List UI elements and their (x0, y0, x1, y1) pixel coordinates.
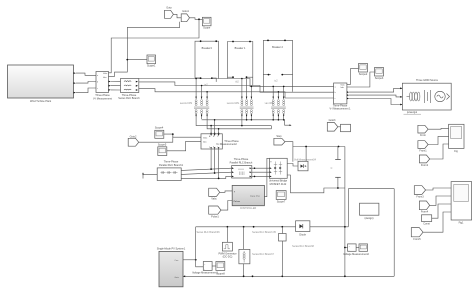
block CONTROLLER subsystem (232, 185, 264, 210)
svg-text:Series RLC Branch06: Series RLC Branch06 (196, 231, 220, 234)
svg-text:Const: Const (423, 223, 430, 226)
svg-text:Fig1: Fig1 (459, 222, 464, 225)
svg-text:Breaker4: Breaker4 (202, 47, 213, 50)
block Three-Phase V-I Measurement (93, 72, 112, 101)
svg-text:Iabc: Iabc (203, 142, 207, 144)
wire tap to voltage measurement2 (345, 247, 348, 249)
block Scope4 (155, 127, 164, 139)
tag From4 (419, 201, 429, 214)
svg-text:Scope8: Scope8 (216, 273, 225, 276)
block Universal Bridge MOSFET (269, 158, 288, 186)
svg-text:Parallel RLC Branch1: Parallel RLC Branch1 (159, 164, 184, 167)
wire curr down to voltage measurement (196, 260, 204, 267)
svg-text:CONTROLLER: CONTROLLER (240, 207, 257, 210)
svg-text:Parallel RLC Branch: Parallel RLC Branch (230, 161, 253, 164)
wire pulses tag down (285, 142, 293, 162)
block Fig1 scope big (451, 182, 472, 225)
wire Vabc1 to Scope2 (347, 69, 359, 85)
svg-text:ta2: ta2 (204, 83, 208, 86)
wire wind plant a to measurement (76, 73, 96, 75)
wire stub into RLC branch1 (143, 174, 157, 178)
svg-text:powergui: powergui (407, 111, 418, 114)
svg-text:Goto: Goto (166, 7, 172, 10)
tag Goto (165, 7, 174, 19)
wire VI1 abc to grid source (349, 88, 402, 92)
transformer T2 three-phase (227, 78, 254, 126)
wire VI2 Iabc to Scope5 (167, 141, 201, 151)
svg-text:Voltage Measurement2: Voltage Measurement2 (343, 253, 369, 256)
svg-text:C: C (331, 167, 333, 170)
transformer T1 three-phase (180, 78, 209, 119)
subsystem Single-Mode PV System1 (157, 247, 186, 286)
wire vm2 to scope9 (356, 247, 359, 249)
tag From2 (419, 155, 429, 167)
block Three-Phase Parallel RLC Branch (230, 158, 253, 178)
wire pulse1 tag to controller (221, 201, 232, 211)
svg-text:second WS: second WS (180, 102, 193, 105)
node junction scope input (198, 18, 200, 20)
svg-text:Scope: Scope (203, 27, 211, 30)
breaker Breaker 2 (263, 40, 292, 92)
breaker Breaker 1 (228, 41, 253, 86)
svg-text:c: c (335, 98, 336, 100)
svg-text:Curr: Curr (175, 260, 179, 262)
tag From pulses (274, 135, 285, 145)
block Three-Phase Grid Source (402, 79, 451, 110)
wire junction to Scope1 (127, 59, 147, 61)
wire RLC1 to parallel RLC b (181, 172, 231, 174)
svg-text:van WG: van WG (265, 102, 274, 105)
svg-text:From: From (420, 134, 426, 137)
svg-text:MOSFET 4142: MOSFET 4142 (270, 183, 287, 186)
block Series RLC Branch7 vertical (239, 227, 275, 277)
svg-text:Goto1: Goto1 (182, 10, 189, 13)
wire step1 to terminator (338, 126, 341, 128)
tag From Vabc (209, 188, 220, 200)
svg-text:Vabc: Vabc (103, 73, 107, 75)
block Three-Phase V-I Measurement 1 (329, 83, 351, 111)
svg-text:V-I Measurement 1: V-I Measurement 1 (329, 108, 351, 111)
svg-text:c: c (217, 147, 218, 149)
svg-text:g: g (270, 161, 271, 163)
svg-text:Scope5: Scope5 (158, 144, 167, 147)
svg-text:V-I Measurement: V-I Measurement (93, 97, 112, 100)
tag Goto2 (128, 135, 139, 146)
block Scope2 (359, 64, 368, 77)
svg-text:Series RLC Branch: Series RLC Branch (118, 97, 140, 100)
block diode D1 (298, 161, 308, 171)
block constant small (422, 215, 432, 226)
wire controller up to bridge gate (264, 158, 269, 196)
wire VI2 Vabc to junction (173, 134, 201, 137)
wire parallel RLC to bridge (252, 167, 270, 169)
block Fig scope big (449, 124, 464, 153)
svg-text:From2: From2 (421, 164, 429, 167)
svg-text:From1: From1 (419, 149, 427, 152)
wire inverter loop upper (347, 189, 349, 227)
svg-text:Series RLC Branch8: Series RLC Branch8 (292, 245, 314, 248)
svg-text:tb2: tb2 (235, 80, 239, 83)
svg-text:Pulse1: Pulse1 (211, 215, 219, 218)
block PWM Generator DC-DC (218, 242, 236, 258)
wire constant to Fig1 (432, 204, 451, 218)
wire bridge minus to dc bottom rail (287, 175, 345, 193)
svg-text:second WG: second WG (227, 102, 240, 105)
block Scope1 (147, 55, 156, 68)
wire Iabc1 to Scope3 (347, 72, 375, 87)
svg-text:Goto3: Goto3 (329, 119, 336, 122)
block Scope3 (375, 68, 384, 81)
wire Vabc up over to scope (109, 19, 200, 73)
wire secondary line H2 (196, 119, 271, 126)
node dots on secondary lines (246, 119, 248, 121)
wire PV top rail (196, 226, 296, 228)
svg-text:Volt Measurement04: Volt Measurement04 (294, 158, 317, 161)
wire From5 to Fig1 (423, 212, 451, 232)
wire From2 to Fig scope (430, 144, 449, 159)
svg-text:g: g (234, 191, 235, 193)
wire dc top rail (293, 146, 345, 148)
svg-text:Wind Turbine Plant: Wind Turbine Plant (30, 100, 51, 103)
wire Gate / bottom rail (183, 275, 394, 277)
breaker Breaker4 (195, 40, 218, 86)
subsystem Wind Turbine Plant (8, 65, 76, 103)
svg-text:Voltage Measurement1: Voltage Measurement1 (192, 271, 218, 274)
wire RLC1 to parallel RLC c (181, 176, 231, 178)
wire From3 to Fig1 (426, 188, 452, 190)
svg-text:Scope3: Scope3 (375, 77, 384, 80)
tag From5 (411, 228, 423, 241)
svg-text:Breaker 2: Breaker 2 (272, 46, 283, 49)
wire From4 to Fig1 (430, 196, 451, 205)
block Scope6 (276, 191, 286, 204)
wire From to Fig scope (428, 127, 449, 130)
block Scope5 (158, 144, 167, 156)
wire bus line B (139, 82, 334, 92)
svg-text:Series RLC Branch 05: Series RLC Branch 05 (252, 231, 276, 234)
wire VI2 bottom drops (210, 149, 212, 169)
tag From1 (418, 141, 428, 153)
svg-text:c: c (97, 88, 98, 90)
wire vertical branch x282 (281, 227, 283, 276)
block Three-Phase V-I Measurement2 (201, 134, 239, 149)
tag Goto1 (181, 10, 189, 22)
tag From pulse1 (209, 206, 221, 218)
wire wind plant b to measurement (76, 82, 96, 84)
svg-text:Scope7: Scope7 (277, 200, 286, 203)
svg-text:Vabc: Vabc (203, 138, 207, 140)
wire Goto2 riser to scope4 junction (139, 134, 173, 142)
block Scope (202, 17, 211, 29)
svg-text:Breaker 1: Breaker 1 (235, 47, 246, 50)
svg-text:Pulses: Pulses (234, 201, 241, 203)
wire inverter loop right side (393, 189, 395, 277)
wire dc rail down right side (344, 147, 346, 277)
node junction scope1 tap (126, 59, 128, 61)
svg-text:Series RLC Branch7: Series RLC Branch7 (252, 253, 274, 256)
block Diode on rail (296, 221, 310, 237)
block Voltage Measurement2 (348, 244, 357, 252)
block design subsystem (360, 203, 379, 220)
svg-text:Fig: Fig (454, 150, 458, 153)
svg-text:Scope1: Scope1 (147, 65, 156, 68)
wire D1 up to dc rail (305, 147, 307, 162)
svg-text:Goto2: Goto2 (130, 135, 137, 138)
svg-text:tc2: tc2 (274, 79, 278, 82)
svg-text:From4: From4 (421, 211, 429, 214)
wire curr up to top rail (195, 227, 197, 260)
block Scope8 (216, 262, 225, 276)
block Three-Phase Parallel RLC Branch1 (157, 161, 183, 181)
svg-text:Vabc: Vabc (211, 197, 217, 200)
wire Vabc tag to controller (220, 191, 233, 192)
svg-text:Single-Mode PV System1: Single-Mode PV System1 (157, 247, 186, 250)
wire Iabc up to goto tag (109, 22, 180, 77)
wire Goto1 to Scope (190, 18, 203, 20)
wire wind plant c to measurement (76, 88, 96, 93)
wire Goto to Goto1 (173, 14, 181, 17)
wire VM1 to scope8 (212, 265, 216, 267)
block terminator small (341, 124, 351, 131)
tag From step1 (327, 119, 338, 131)
svg-text:(DC-DC): (DC-DC) (223, 256, 233, 259)
block Voltage Measurement1 (192, 262, 218, 275)
wire RLC1 to parallel RLC a (181, 168, 231, 170)
svg-text:Scope2: Scope2 (359, 73, 368, 76)
block Scope9 (343, 244, 369, 256)
svg-text:From5: From5 (413, 238, 421, 241)
svg-text:Step: Step (276, 135, 282, 138)
svg-text:(design): (design) (364, 217, 373, 220)
wire PWM to rail (226, 227, 228, 243)
tag From (418, 125, 428, 137)
wire secondary line H1 (202, 120, 290, 125)
svg-text:Data Plot: Data Plot (250, 195, 260, 198)
tag From3 (414, 186, 425, 199)
wire From1 to Fig scope (428, 136, 449, 144)
svg-text:Iabc: Iabc (340, 87, 344, 89)
svg-text:Diode: Diode (299, 234, 306, 237)
svg-text:Three GRID Source: Three GRID Source (416, 79, 439, 82)
wire bridge plus to D1 (287, 164, 298, 167)
transformer T3 three-phase (265, 86, 286, 120)
wire drops into VI2 top ports (210, 126, 212, 134)
wire bus line C (139, 89, 334, 98)
wire bus line A (139, 79, 334, 87)
svg-text:V-I Measurement2: V-I Measurement2 (216, 143, 237, 146)
svg-text:From3: From3 (416, 195, 424, 198)
wire VI abc to series RLC branch (111, 80, 121, 82)
svg-text:Scope4: Scope4 (155, 127, 164, 130)
capacitor C dc link (331, 147, 341, 189)
svg-text:Iabc: Iabc (103, 77, 107, 79)
wire Curr out (183, 259, 196, 261)
wire secondary line H3 (207, 119, 271, 129)
block Three-Phase Series RLC Branch (118, 79, 140, 101)
block small series element on x282 (279, 234, 287, 242)
